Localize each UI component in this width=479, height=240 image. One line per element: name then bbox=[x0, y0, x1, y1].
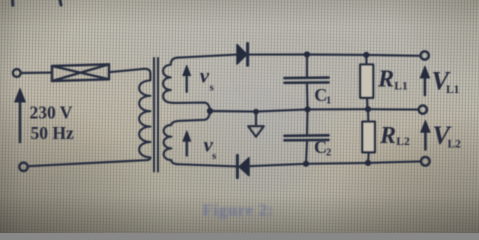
svg-text:L1: L1 bbox=[446, 84, 460, 96]
svg-text:L2: L2 bbox=[396, 136, 410, 148]
svg-text:R: R bbox=[379, 123, 396, 149]
svg-text:1: 1 bbox=[326, 96, 331, 107]
svg-text:Figure 2:: Figure 2: bbox=[203, 201, 275, 220]
svg-text:v: v bbox=[200, 63, 210, 87]
svg-text:230 V: 230 V bbox=[30, 103, 73, 123]
svg-text:s: s bbox=[210, 82, 215, 94]
svg-text:L1: L1 bbox=[394, 80, 408, 92]
svg-text:L2: L2 bbox=[448, 138, 462, 150]
svg-text:2: 2 bbox=[326, 148, 331, 159]
svg-text:R: R bbox=[377, 67, 394, 93]
svg-text:50 Hz: 50 Hz bbox=[31, 123, 74, 143]
svg-text:s: s bbox=[212, 150, 217, 162]
